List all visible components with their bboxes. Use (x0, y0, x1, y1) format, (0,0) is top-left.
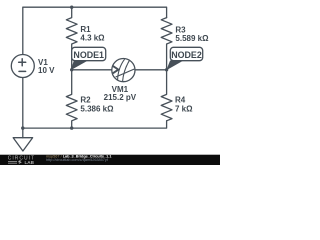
svg-text:LAB: LAB (25, 160, 35, 165)
svg-text:5.386 kΩ: 5.386 kΩ (80, 104, 114, 113)
svg-text:4.3 kΩ: 4.3 kΩ (80, 34, 105, 43)
svg-text:http://circuitlab.com/c/qam526: http://circuitlab.com/c/qam5263857yf (46, 158, 109, 162)
svg-text:5.589 kΩ: 5.589 kΩ (175, 34, 209, 43)
svg-text:R2: R2 (80, 95, 91, 104)
svg-text:NODE2: NODE2 (171, 50, 202, 60)
svg-text:215.2 pV: 215.2 pV (104, 93, 137, 102)
svg-text:NODE1: NODE1 (73, 50, 104, 60)
svg-text:10 V: 10 V (38, 66, 55, 75)
svg-text:7 kΩ: 7 kΩ (175, 104, 193, 113)
svg-text:R4: R4 (175, 95, 186, 104)
